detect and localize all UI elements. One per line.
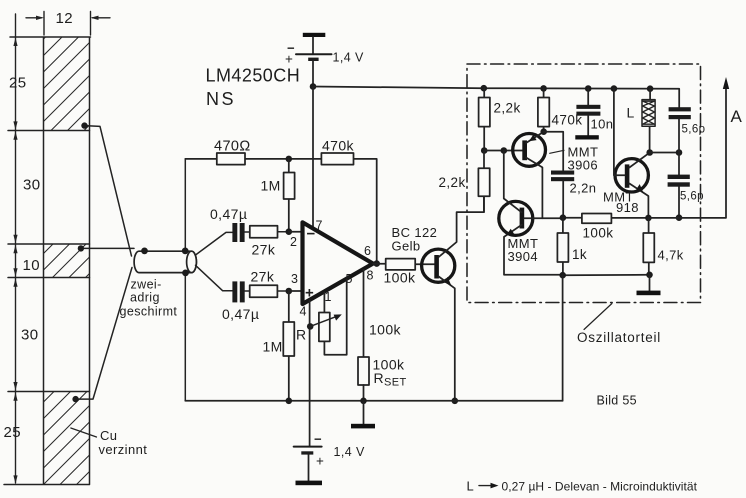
node rail MMT918 base	[611, 85, 618, 92]
svg-text:27k: 27k	[252, 242, 276, 258]
wire left ground rail	[184, 159, 186, 401]
node 56p bottom	[676, 214, 683, 221]
svg-text:27k: 27k	[251, 269, 275, 285]
wire to pin 2	[289, 231, 302, 233]
arrowhead output A	[723, 77, 729, 89]
svg-text:+: +	[316, 454, 324, 469]
svg-text:RSET: RSET	[374, 370, 407, 389]
transistor Q2 MMT3906	[513, 132, 546, 219]
svg-text:NS: NS	[206, 89, 236, 109]
capacitor 10n to ground	[575, 89, 613, 140]
resistor 2,2k upper	[479, 88, 521, 150]
svg-text:0,47µ: 0,47µ	[210, 206, 247, 222]
svg-text:2,2k: 2,2k	[494, 101, 521, 116]
svg-text:L: L	[467, 479, 475, 494]
wire cable to lower input cap	[196, 265, 233, 291]
wire ground to battery B1	[312, 37, 314, 54]
svg-text:100k: 100k	[583, 226, 614, 241]
wire emitter node to 2,2n	[544, 132, 564, 171]
transistor Q3 MMT3904	[499, 151, 563, 275]
node MMT3904 collector to MMT3906 base	[501, 147, 508, 154]
svg-text:1,4 V: 1,4 V	[334, 445, 365, 459]
svg-text:1M: 1M	[263, 339, 283, 355]
wire emitter row to 4,7k bottom	[563, 274, 650, 277]
svg-text:5,6p: 5,6p	[680, 191, 704, 203]
wire 1k node down to main rail	[562, 275, 564, 401]
wire row 218 junction to 100k	[563, 217, 649, 219]
svg-text:10n: 10n	[591, 117, 614, 132]
resistor 1M upper	[261, 159, 295, 232]
svg-text:L: L	[627, 105, 635, 121]
potentiometer R 100k offset	[296, 280, 402, 355]
svg-text:30: 30	[21, 327, 39, 344]
capacitor 5,6p upper	[669, 107, 706, 152]
capacitor 0,47u lower	[222, 281, 259, 322]
electrode bar outline	[4, 37, 91, 485]
node rail entry	[481, 85, 488, 92]
wire pin 8 to RSET	[363, 270, 365, 357]
dimension line 12 (top)	[26, 10, 110, 35]
wire V+ to op-amp pin 7	[312, 87, 314, 228]
label Oszillatorteil with leader	[577, 304, 661, 346]
resistor 100k oscillator	[582, 214, 613, 241]
node rail 10n	[585, 85, 592, 92]
label BC122 Gelb	[392, 225, 438, 254]
wire electrode middle tap to cable	[81, 247, 134, 249]
shielded cable body	[134, 251, 196, 272]
wire electrode top tap to cable	[85, 126, 132, 256]
svg-text:adrig: adrig	[130, 291, 160, 305]
node 2,2n / base / 1k junction	[560, 214, 567, 221]
svg-text:3906: 3906	[568, 158, 599, 173]
node cable shield left	[141, 248, 148, 255]
svg-text:25: 25	[4, 424, 22, 441]
node pot wiper on pin4 line	[307, 323, 314, 330]
transistor Q1 BC122	[422, 196, 484, 400]
svg-text:6: 6	[364, 244, 371, 258]
wire battery B2 to ground	[308, 455, 310, 481]
transistor Q4 MMT918	[614, 89, 650, 218]
vertical dimension line column	[13, 14, 17, 484]
capacitor 5,6p lower	[668, 153, 704, 218]
svg-text:12: 12	[56, 10, 74, 27]
svg-text:R: R	[296, 327, 307, 343]
svg-text:30: 30	[23, 177, 41, 194]
ground oscillator	[637, 275, 661, 295]
label MMT 3906 with leader	[550, 145, 599, 173]
label MMT 3904	[508, 236, 539, 264]
node MMT3906 emitter junction	[540, 128, 547, 135]
resistor 470k feedback	[321, 138, 354, 165]
label zweiadrig geschirmt	[120, 278, 178, 319]
resistor 100k output	[373, 259, 435, 286]
svg-text:918: 918	[616, 200, 639, 215]
node feedback/1M junction	[286, 156, 293, 163]
svg-text:0,27 µH - Delevan - Microinduk: 0,27 µH - Delevan - Microinduktivität	[502, 480, 698, 494]
svg-text:100k: 100k	[384, 270, 417, 286]
node cable shield top	[182, 248, 189, 255]
wire to pin 3	[289, 290, 302, 292]
node 56p mid junction	[676, 149, 683, 156]
svg-text:1,4 V: 1,4 V	[333, 51, 364, 65]
node cable shield bottom	[182, 270, 189, 277]
resistor 1k	[557, 218, 587, 276]
svg-text:470Ω: 470Ω	[214, 139, 251, 155]
node V+	[310, 83, 317, 90]
ground top	[303, 33, 326, 37]
svg-text:geschirmt: geschirmt	[120, 305, 178, 319]
resistor 2,2k lower	[439, 151, 490, 213]
wire output row to A	[648, 84, 726, 218]
svg-text:0,47µ: 0,47µ	[222, 306, 259, 322]
electrode hatched section top (25)	[44, 38, 89, 131]
battery B2 1,4V bottom	[294, 432, 365, 469]
svg-text:2,2k: 2,2k	[439, 175, 466, 190]
electrode hatched section middle (10)	[44, 244, 89, 278]
svg-text:Cu: Cu	[100, 428, 117, 443]
svg-text:1M: 1M	[261, 178, 281, 194]
svg-text:7: 7	[316, 219, 323, 233]
op-amp U1 LM4250 triangle	[303, 222, 374, 304]
svg-text:3: 3	[291, 272, 298, 286]
resistor 4,7k	[643, 218, 683, 275]
wire battery B1 to V+ node	[312, 61, 314, 87]
svg-text:Bild 55: Bild 55	[597, 394, 637, 408]
ground stub mid	[351, 401, 375, 429]
resistor 27k lower	[245, 269, 289, 298]
inductor L	[627, 89, 656, 153]
svg-text:A: A	[731, 107, 743, 126]
caption L 0,27uH Delevan Microinduktivitaet	[467, 479, 698, 494]
svg-text:470k: 470k	[322, 138, 355, 154]
svg-text:−: −	[314, 432, 322, 447]
resistor 470k oscillator	[538, 88, 582, 131]
capacitor 2,2n	[551, 171, 596, 218]
svg-text:−: −	[307, 226, 316, 243]
node BC122 emitter at rail	[452, 398, 459, 405]
svg-text:100k: 100k	[369, 322, 402, 338]
node 2,2k junction	[481, 147, 488, 154]
node RSET at rail	[360, 398, 367, 405]
svg-text:1k: 1k	[572, 247, 587, 262]
label MMT 918	[603, 190, 639, 216]
node electrode top tap	[81, 122, 87, 128]
wire collector node to 56p column	[650, 152, 679, 154]
svg-text:2: 2	[290, 235, 297, 249]
resistor RSET 100k	[358, 357, 407, 401]
resistor 27k upper	[245, 226, 289, 258]
node electrode bottom tap	[72, 396, 78, 402]
wire pin 4 / V- column	[309, 300, 311, 447]
svg-text:1: 1	[325, 290, 332, 304]
capacitor 0,47u upper	[210, 206, 247, 242]
battery B1 1,4V top	[285, 41, 364, 67]
svg-text:verzinnt: verzinnt	[99, 442, 148, 457]
node 1k bottom	[559, 272, 566, 279]
wire feedback top row	[185, 159, 376, 264]
svg-text:3904: 3904	[508, 249, 539, 264]
svg-text:4,7k: 4,7k	[658, 248, 684, 263]
svg-text:5,6p: 5,6p	[682, 124, 706, 136]
node electrode middle tap	[78, 245, 84, 251]
svg-text:zwei-: zwei-	[131, 278, 162, 292]
svg-text:Gelb: Gelb	[392, 239, 421, 254]
svg-text:4: 4	[300, 305, 307, 319]
wire electrode bottom tap to cable	[76, 268, 132, 400]
label LM4250CH NS	[206, 66, 301, 110]
wire bottom ground rail	[185, 400, 562, 402]
node 4,7k bottom	[646, 272, 653, 279]
electrode hatched section bottom (25)	[44, 392, 89, 485]
node op-amp output pin 6	[373, 260, 380, 267]
svg-text:+: +	[285, 52, 293, 67]
ground bottom	[296, 481, 323, 486]
resistor 470ohm	[214, 139, 251, 165]
svg-text:2,2n: 2,2n	[570, 181, 597, 196]
svg-text:10: 10	[23, 257, 41, 274]
node L bottom / collector	[646, 149, 653, 156]
svg-text:8: 8	[367, 269, 374, 283]
wire base MMT3906	[484, 150, 522, 152]
label Cu verzinnt with leader	[71, 428, 147, 457]
resistor 1M lower	[263, 291, 295, 401]
wire cable to upper input cap	[196, 232, 233, 255]
svg-text:Oszillatorteil: Oszillatorteil	[577, 330, 661, 345]
svg-text:LM4250CH: LM4250CH	[206, 66, 301, 86]
node rail L	[647, 85, 654, 92]
node rail 470k	[540, 85, 547, 92]
svg-text:25: 25	[9, 75, 27, 92]
node inverting input	[286, 228, 293, 235]
node MMT918 emitter / 100k	[645, 215, 652, 222]
wire oscillator top rail	[483, 88, 679, 107]
svg-text:+: +	[305, 285, 314, 302]
oscillator box dash-dot border	[467, 64, 701, 303]
wire V+ node to oscillator box rail	[313, 87, 483, 89]
node noninverting input	[286, 288, 293, 295]
node 1M lower at rail	[286, 398, 293, 405]
